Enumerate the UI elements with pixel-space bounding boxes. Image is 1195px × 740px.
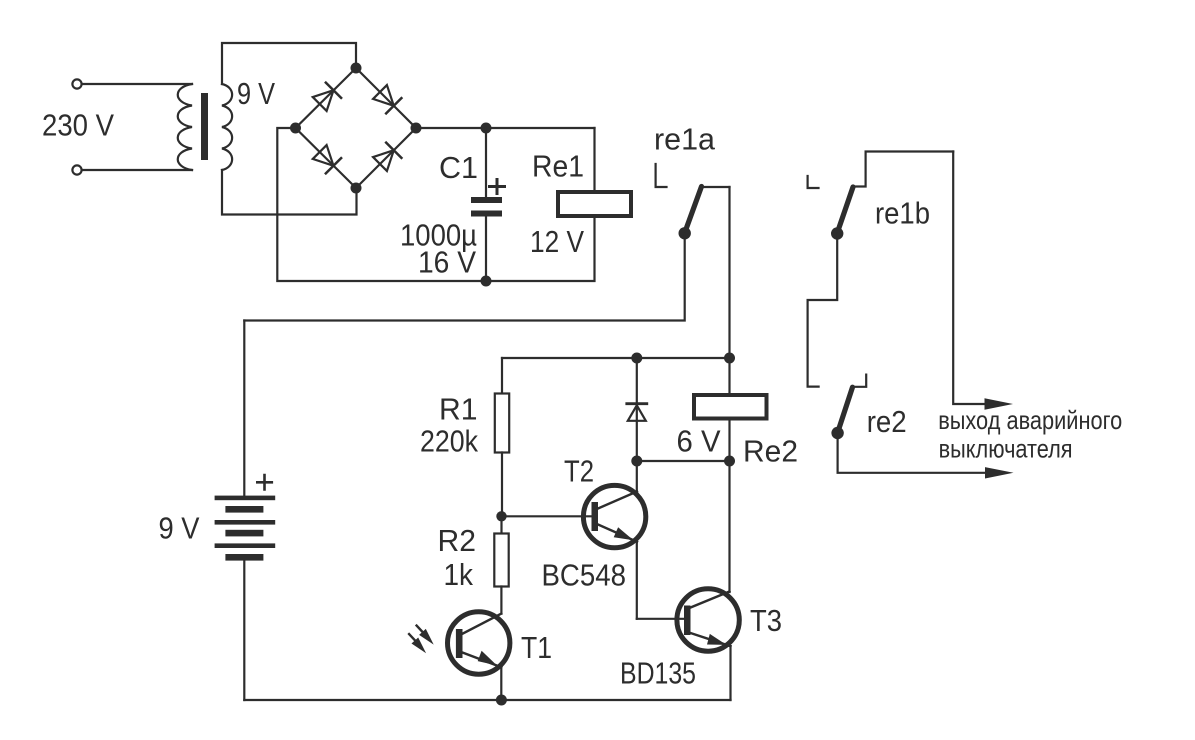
svg-text:T2: T2: [564, 454, 594, 489]
transformer TR1 primary winding: [178, 84, 192, 170]
node re2 pivot: [831, 427, 843, 439]
wire re1a down long vertical: [728, 187, 730, 592]
node bridge bottom: [351, 183, 362, 194]
relay coil Re2: [694, 395, 767, 419]
relay coil Re1: [558, 192, 631, 216]
wire re1a top: [701, 186, 730, 188]
svg-text:9 V: 9 V: [237, 76, 275, 111]
svg-text:9 V: 9 V: [159, 511, 200, 546]
svg-text:BC548: BC548: [542, 558, 627, 593]
terminal top-left 230V input: [72, 79, 81, 88]
T1 collector: [463, 614, 502, 634]
node re1a pivot: [679, 227, 691, 239]
svg-text:C1: C1: [439, 150, 478, 185]
wire diode bottom to Re2: [637, 460, 730, 462]
T2 base wire: [502, 515, 592, 517]
node diode bottom: [631, 456, 642, 467]
T2 base bar: [592, 502, 599, 531]
bridge diode top-right: [372, 84, 401, 113]
bridge diode bottom-left: [312, 144, 341, 173]
svg-text:6 V: 6 V: [677, 424, 721, 459]
svg-text:BD135: BD135: [620, 656, 696, 691]
arrowhead output 1: [985, 398, 1014, 409]
fixed contact mark re1a: [656, 164, 667, 187]
capacitor C1: [485, 128, 487, 197]
svg-text:220k: 220k: [420, 424, 478, 459]
svg-text:230 V: 230 V: [42, 108, 114, 143]
fixed contact mark re1b: [808, 176, 819, 188]
T3 collector: [691, 592, 730, 608]
arrowhead output 2: [985, 467, 1014, 478]
switch contact re1a arm: [685, 187, 702, 233]
switch contact re2 stub: [854, 375, 867, 387]
node T1 emitter ground: [496, 695, 507, 706]
T3 emitter: [691, 633, 731, 646]
svg-text:T3: T3: [750, 603, 782, 638]
wire DC minus loop: [277, 128, 594, 281]
wire secondary bottom to bridge: [222, 170, 357, 215]
resistor R2: [500, 516, 502, 534]
svg-text:R1: R1: [439, 392, 478, 427]
wire re1b output: [953, 152, 990, 405]
svg-text:12 V: 12 V: [530, 224, 584, 259]
resistor R1: [501, 358, 503, 394]
wire primary bottom: [82, 169, 192, 171]
T1 emitter: [463, 653, 502, 668]
wire re1a to battery rail: [244, 233, 684, 320]
node diode top: [631, 353, 642, 364]
wire secondary top to bridge: [222, 43, 356, 84]
svg-text:R2: R2: [438, 523, 477, 558]
light arrow 2: [409, 634, 416, 641]
svg-text:T1: T1: [521, 630, 552, 665]
transistor T3 BD135: [677, 589, 739, 651]
T1 base bar: [456, 629, 463, 658]
svg-text:Re1: Re1: [532, 149, 584, 184]
T3 base bar: [684, 606, 691, 636]
bridge diode top-left: [312, 83, 341, 112]
wire re1b to re2: [808, 234, 838, 387]
wire re1b top: [854, 152, 954, 187]
battery plates: [215, 496, 276, 501]
wire primary top: [82, 83, 192, 85]
T2 emitter: [598, 525, 637, 542]
T2 collector: [598, 492, 637, 509]
plus mark battery: [257, 475, 272, 490]
svg-text:выход аварийного: выход аварийного: [938, 405, 1122, 435]
node re1a rail crossing: [724, 353, 735, 364]
svg-text:re1b: re1b: [875, 196, 930, 231]
wire upper rail of T2 stage: [502, 357, 730, 359]
node C1 top: [481, 123, 492, 134]
node bridge left: [290, 123, 301, 134]
node re1b pivot: [831, 227, 843, 239]
node C1 bottom: [481, 276, 492, 287]
plus mark C1: [490, 180, 505, 194]
switch contact re1b arm: [837, 187, 853, 233]
node bridge right: [411, 123, 422, 134]
bridge rectifier edges: [296, 68, 417, 188]
light arrow 1: [417, 626, 424, 633]
transistor T1 photo: [448, 612, 510, 674]
svg-text:re2: re2: [867, 404, 907, 439]
bridge diode bottom-right: [372, 143, 401, 172]
battery BAT 9V wires: [243, 321, 245, 496]
node Re2 bottom: [724, 456, 735, 467]
svg-text:1k: 1k: [444, 557, 474, 592]
transformer core: [201, 93, 208, 160]
svg-text:Re2: Re2: [743, 434, 798, 469]
transformer TR1 secondary winding: [222, 84, 232, 170]
svg-text:выключателя: выключателя: [939, 433, 1073, 463]
wire DC plus rail: [416, 127, 595, 129]
node bridge top: [351, 63, 362, 74]
wire Re1 coil vertical: [593, 128, 595, 192]
wire re2 output: [838, 433, 990, 473]
freewheel diode D1: [636, 358, 638, 461]
terminal bottom-left 230V input: [72, 165, 81, 174]
svg-text:16 V: 16 V: [418, 245, 476, 280]
switch contact re2 arm: [838, 387, 853, 432]
node R1 R2 junction: [496, 511, 506, 521]
svg-text:re1a: re1a: [654, 122, 716, 157]
wire ground rail bottom: [244, 699, 730, 701]
T3 base wire: [637, 618, 684, 620]
transistor T2 BC548: [583, 485, 645, 547]
